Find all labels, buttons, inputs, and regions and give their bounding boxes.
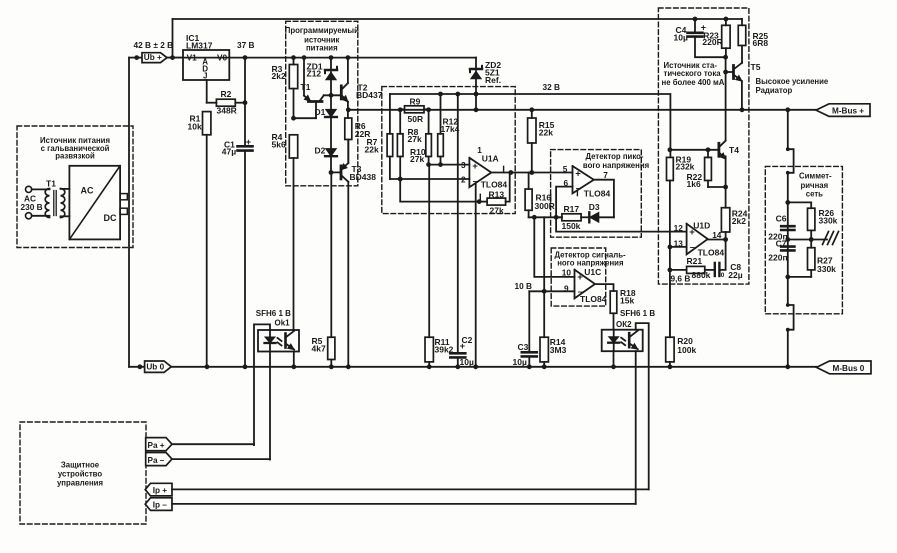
svg-text:Pa –: Pa – <box>148 456 165 465</box>
wire U1D pin13 <box>668 245 687 250</box>
resistor R25 <box>738 19 768 62</box>
wire U1D output <box>708 237 728 242</box>
svg-text:+: + <box>472 161 478 172</box>
resistor R10 <box>410 110 431 165</box>
AC/DC converter U <box>69 166 127 240</box>
svg-text:U1D: U1D <box>693 220 710 230</box>
box programmable source <box>286 21 358 186</box>
wire R8 to R13 row <box>400 179 480 202</box>
wire sym mid row <box>785 237 827 242</box>
transformer T1 terminals <box>21 179 57 219</box>
resistor R14 <box>540 217 567 366</box>
node Ub+ junction <box>129 55 175 60</box>
svg-text:SFH6 1 В: SFH6 1 В <box>620 309 655 318</box>
resistor R4 <box>272 132 298 158</box>
node bottom rail dots <box>138 364 791 369</box>
svg-text:SFH6 1 В: SFH6 1 В <box>256 309 291 318</box>
diode D2 <box>315 145 337 172</box>
svg-text:2k2: 2k2 <box>732 216 746 226</box>
capacitor C7 220p <box>768 238 794 262</box>
svg-text:+: + <box>575 168 581 179</box>
svg-text:47µ: 47µ <box>222 147 236 157</box>
resistor R16 <box>525 173 555 218</box>
svg-text:330k: 330k <box>817 264 836 274</box>
svg-text:устройство: устройство <box>58 470 102 479</box>
svg-text:Z12: Z12 <box>307 69 322 79</box>
svg-text:V0: V0 <box>217 53 228 63</box>
wire R19 base row <box>668 147 719 152</box>
resistor R3 <box>272 58 298 119</box>
transistor T4 <box>719 141 739 208</box>
resistor R17 <box>556 204 581 231</box>
diode D1 <box>315 95 337 148</box>
svg-text:17k4: 17k4 <box>441 124 460 134</box>
box protective device <box>20 422 146 524</box>
resistor R23 <box>702 19 730 57</box>
svg-text:BD438: BD438 <box>350 172 377 182</box>
wire left vertical Ub <box>128 58 130 367</box>
regulator IC1 LM317 <box>183 33 229 81</box>
svg-text:220п: 220п <box>768 253 787 263</box>
wire OK2 collector to Ip+ <box>636 323 649 489</box>
svg-text:TLO84: TLO84 <box>584 188 611 198</box>
svg-text:U1C: U1C <box>584 267 601 277</box>
svg-text:330k: 330k <box>819 216 838 226</box>
svg-text:2k2: 2k2 <box>272 71 286 81</box>
svg-text:D1: D1 <box>315 107 326 117</box>
wire 32V spur <box>390 94 671 157</box>
svg-text:22k: 22k <box>539 127 553 137</box>
svg-text:27k: 27k <box>408 134 422 144</box>
wire sym exit jog <box>786 303 794 367</box>
resistor R2 <box>216 89 245 115</box>
svg-text:–: – <box>473 176 479 187</box>
tag Pa+ <box>146 438 172 451</box>
svg-text:развязкой: развязкой <box>55 152 95 161</box>
svg-text:10k: 10k <box>188 122 202 132</box>
svg-text:Симмет-: Симмет- <box>799 172 832 181</box>
svg-text:BD437: BD437 <box>356 90 383 100</box>
svg-text:+: + <box>577 272 583 283</box>
label R7 22k <box>365 137 379 155</box>
svg-text:TLO84: TLO84 <box>580 294 607 304</box>
svg-text:22k: 22k <box>365 145 379 155</box>
svg-text:M-Bus 0: M-Bus 0 <box>833 364 865 373</box>
node D2/T3 base junction <box>329 170 341 175</box>
svg-text:D2: D2 <box>315 145 326 155</box>
capacitor C1 <box>222 58 253 367</box>
resistor R19 <box>667 155 695 247</box>
node R2 junctions <box>243 100 248 105</box>
wire sym entry jog <box>786 110 794 175</box>
wire U1A out to pin5 <box>531 172 573 174</box>
svg-text:15k: 15k <box>620 296 634 306</box>
capacitor C8 22u <box>705 240 743 281</box>
tag Ub+ <box>142 53 167 63</box>
resistor R12 <box>438 94 460 165</box>
svg-text:M-Bus +: M-Bus + <box>832 107 864 116</box>
wire R21 column to R20 <box>669 270 671 337</box>
svg-text:Детектор пико-: Детектор пико- <box>586 152 644 161</box>
wire Pa+ line <box>172 443 254 446</box>
svg-text:+: + <box>246 137 251 147</box>
wire U1A pin11 column down <box>475 183 477 367</box>
svg-text:348R: 348R <box>217 105 237 115</box>
node C4 top dot <box>693 17 698 22</box>
svg-text:150k: 150k <box>562 221 581 231</box>
svg-text:10 В: 10 В <box>515 281 533 291</box>
svg-text:T4: T4 <box>729 145 739 155</box>
wire Ok1 emitter to rail <box>293 352 295 367</box>
box U1A dashed <box>382 87 515 214</box>
resistor R11 <box>425 165 454 367</box>
svg-text:50R: 50R <box>408 114 424 124</box>
svg-text:Ref.: Ref. <box>485 75 501 85</box>
resistor R6 <box>345 118 371 161</box>
svg-text:10µ: 10µ <box>674 33 688 43</box>
svg-text:1k6: 1k6 <box>687 179 701 189</box>
svg-text:7: 7 <box>603 170 608 180</box>
svg-text:Ub +: Ub + <box>144 53 162 62</box>
svg-text:12: 12 <box>674 223 684 233</box>
capacitor C3 <box>513 291 537 367</box>
svg-text:R9: R9 <box>410 97 421 107</box>
svg-text:D3: D3 <box>589 202 600 212</box>
capacitor C4 <box>674 19 726 57</box>
node T1 collector dot <box>302 55 307 60</box>
label 42V <box>134 40 174 50</box>
resistor R22 <box>687 150 712 189</box>
label детектор сигнального <box>555 250 627 267</box>
wire pin3 row <box>426 162 469 167</box>
box symmetric network <box>765 166 842 313</box>
resistor R8 <box>397 110 422 179</box>
node sym top junction <box>785 200 811 208</box>
svg-text:Ub 0: Ub 0 <box>146 363 164 372</box>
op-amp U1C <box>562 267 607 304</box>
svg-text:27k: 27k <box>490 205 504 215</box>
svg-text:R2: R2 <box>221 89 232 99</box>
node ZD1/D1/T1/T2 junction <box>329 93 334 98</box>
svg-text:TLO84: TLO84 <box>481 179 508 189</box>
svg-text:42 В ± 2 В: 42 В ± 2 В <box>134 40 174 50</box>
svg-text:C3: C3 <box>518 342 529 352</box>
transistor T1 <box>301 58 324 119</box>
svg-text:ричная: ричная <box>801 181 829 190</box>
node R23 bottom junction <box>723 55 728 60</box>
resistor R9 <box>400 97 428 125</box>
capacitor C2 <box>450 94 474 367</box>
svg-text:Защитное: Защитное <box>61 461 100 470</box>
wire Pa- line <box>172 458 270 460</box>
resistor R27 <box>808 240 837 277</box>
wire R4 to OK1 collector <box>293 158 295 330</box>
svg-text:27k: 27k <box>410 154 424 164</box>
resistor R1 <box>188 112 211 367</box>
ground chassis <box>823 232 839 245</box>
resistor R20 <box>666 281 697 367</box>
svg-text:100k: 100k <box>677 345 696 355</box>
label прогр. источник title <box>285 26 359 53</box>
box signal detector <box>551 248 606 306</box>
svg-text:37 В: 37 В <box>237 40 255 50</box>
op-amp U1D <box>674 220 725 257</box>
svg-text:тического тока: тического тока <box>664 69 722 78</box>
wire peak out to U1D pin12 <box>556 217 687 231</box>
wire Ok1 cathode to Pa- <box>269 352 271 460</box>
label источник питания title <box>40 136 110 161</box>
svg-text:10: 10 <box>562 267 572 277</box>
tag Ip- <box>145 498 172 511</box>
tag M-Bus+ <box>816 104 870 117</box>
wire pin9 row <box>529 289 574 294</box>
wire 32V bus <box>348 109 816 111</box>
node R13 left junction <box>477 194 482 204</box>
svg-text:220R: 220R <box>702 37 722 47</box>
resistor R15 <box>528 110 555 173</box>
wire Ok1 anode to Pa+ <box>254 324 270 445</box>
wire U1A output <box>491 166 531 175</box>
wire Ub+ to V1 <box>167 57 183 59</box>
resistor R18 <box>610 288 636 330</box>
label 9.6V <box>671 274 691 284</box>
svg-text:DC: DC <box>104 213 117 223</box>
wire pin2 row <box>390 177 470 182</box>
wire 37V rail <box>167 57 476 59</box>
svg-text:T1: T1 <box>301 82 311 92</box>
label детектор пикового <box>583 152 649 170</box>
svg-text:Программируемый: Программируемый <box>285 26 359 35</box>
svg-text:–: – <box>690 242 696 253</box>
svg-text:C6: C6 <box>776 213 787 223</box>
label высокое усиление <box>756 77 829 95</box>
label симметричная сеть <box>799 172 832 199</box>
label 32V <box>543 82 561 92</box>
svg-text:R17: R17 <box>564 204 580 214</box>
node bus dots <box>346 107 790 112</box>
box static current source <box>658 8 749 284</box>
node R23 top dot <box>724 17 729 22</box>
optocoupler Ok1 <box>256 309 299 352</box>
wire U1B pin6 <box>556 187 572 218</box>
svg-text:C7: C7 <box>776 238 787 248</box>
label 10V <box>515 281 533 291</box>
resistor R5 <box>312 336 335 367</box>
node pin6/R17 junction <box>554 215 559 220</box>
wire bottom Ub0/M-Bus0 rail <box>129 366 817 368</box>
node 32V spur dots <box>438 92 478 97</box>
svg-text:не более 400 мА: не более 400 мА <box>662 78 725 87</box>
svg-text:управления: управления <box>57 478 103 487</box>
svg-text:5: 5 <box>563 164 568 174</box>
zener ZD2 <box>470 58 501 110</box>
wire OK2 emitter to Ip- <box>635 351 637 504</box>
svg-text:T1: T1 <box>46 179 56 189</box>
svg-text:230 В: 230 В <box>21 202 43 212</box>
svg-text:3: 3 <box>461 160 466 170</box>
svg-text:вого напряжения: вого напряжения <box>583 161 649 170</box>
wire R22 to T4 emitter <box>708 185 728 190</box>
label 37V <box>237 40 255 50</box>
label защитное устройство <box>57 461 103 488</box>
svg-text:сеть: сеть <box>806 190 823 199</box>
svg-text:232k: 232k <box>676 162 695 172</box>
wire pin10 drop <box>534 217 574 277</box>
node R3/R4/T1 base junction <box>291 116 316 121</box>
wire top 42V rail <box>173 19 743 58</box>
svg-text:Pa +: Pa + <box>148 441 165 450</box>
box peak detector <box>551 150 642 238</box>
tag Pa- <box>146 453 172 466</box>
wire Ok1 collector up <box>293 329 295 331</box>
wire Ip- line <box>172 503 636 505</box>
box power supply (galvanic isolation) <box>17 126 133 248</box>
resistor R7 <box>387 134 393 179</box>
svg-text:9,6 В: 9,6 В <box>671 274 691 284</box>
node R15/R16 junction <box>529 170 534 175</box>
resistor R26 <box>808 208 838 240</box>
tag Ip+ <box>145 483 172 496</box>
svg-text:0: 0 <box>721 272 725 279</box>
svg-text:5k6: 5k6 <box>272 140 286 150</box>
svg-text:R13: R13 <box>489 190 505 200</box>
svg-text:10µ: 10µ <box>513 357 527 367</box>
svg-text:U1A: U1A <box>482 154 499 164</box>
resistor R13 feedback <box>480 173 509 216</box>
transistor T3 <box>341 140 376 367</box>
wire sym main column <box>787 173 789 305</box>
svg-text:ОК2: ОК2 <box>616 320 632 329</box>
wire R16 to R17 row <box>529 215 562 220</box>
tag Ub0 <box>145 361 172 372</box>
svg-text:32 В: 32 В <box>543 82 561 92</box>
svg-text:LM317: LM317 <box>186 41 213 51</box>
svg-text:AC: AC <box>81 186 94 196</box>
transistor T2 <box>341 58 382 118</box>
transformer T1 windings <box>32 189 70 218</box>
svg-text:300R: 300R <box>535 201 555 211</box>
wire sym bottom row <box>785 275 811 280</box>
svg-text:880k: 880k <box>692 270 711 280</box>
transistor T5 <box>723 57 760 140</box>
optocoupler OK2 <box>602 309 656 351</box>
op-amp U1B <box>563 164 611 199</box>
zener ZD1 <box>307 58 338 96</box>
wire ADJ pin <box>207 80 217 103</box>
svg-text:Радиатор: Радиатор <box>756 86 793 95</box>
svg-text:Ip –: Ip – <box>153 501 168 510</box>
svg-text:+: + <box>460 341 465 351</box>
svg-text:6R8: 6R8 <box>753 38 769 48</box>
wire D2 column to R5 <box>330 172 332 337</box>
svg-text:10µ: 10µ <box>460 357 474 367</box>
tag M-Bus0 <box>817 361 872 374</box>
wire R19 column to R21 <box>668 247 673 272</box>
wire U1B output to D3 <box>594 180 614 218</box>
op-amp U1A <box>461 145 507 189</box>
svg-text:питания: питания <box>306 44 338 53</box>
svg-text:T5: T5 <box>751 62 761 72</box>
resistor R21 <box>670 256 711 280</box>
wire Ip+ line <box>172 488 649 490</box>
node V0 rail dots <box>243 55 351 60</box>
svg-text:4k7: 4k7 <box>312 344 326 354</box>
resistor R24 <box>721 208 747 240</box>
capacitor C6 220p <box>768 213 794 241</box>
wire OK2 cathode to rail <box>613 351 615 367</box>
label источник статического тока <box>662 61 725 87</box>
svg-text:Ok1: Ok1 <box>275 319 291 328</box>
wire U1C output to R18 <box>595 284 614 291</box>
svg-text:R21: R21 <box>687 256 703 266</box>
svg-text:22µ: 22µ <box>728 270 742 280</box>
svg-text:Ip +: Ip + <box>153 486 168 495</box>
svg-text:3M3: 3M3 <box>550 345 567 355</box>
svg-text:V1: V1 <box>187 53 198 63</box>
diode D3 <box>581 202 614 222</box>
svg-text:2: 2 <box>461 174 466 184</box>
wire T1 emitter to T2 base <box>324 94 342 96</box>
